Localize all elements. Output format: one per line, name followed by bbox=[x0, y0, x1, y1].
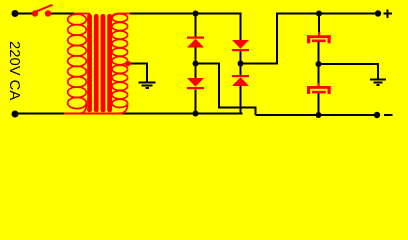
terminal input top bbox=[12, 10, 19, 17]
node top cap junction bbox=[316, 11, 322, 17]
node bottom cap junction bbox=[316, 112, 322, 118]
diode D3 lower left bbox=[187, 78, 204, 89]
wire left branch top bbox=[195, 14, 197, 37]
wire bottom cap lower lead bbox=[318, 93, 320, 116]
diode D2 upper right bbox=[232, 40, 249, 51]
svg-text:220V CA: 220V CA bbox=[6, 41, 22, 100]
ground symbol right bbox=[370, 80, 386, 86]
wire minus vertical jog bbox=[218, 64, 220, 109]
plus sign bbox=[384, 10, 393, 19]
wire secondary top to bridge top bbox=[130, 13, 242, 15]
wire minus horizontal jog bbox=[218, 107, 257, 109]
wire minus step down bbox=[255, 108, 257, 116]
wire ac bottom rail left black bbox=[15, 113, 65, 115]
node left branch middle bbox=[193, 61, 199, 67]
terminal input bottom bbox=[12, 111, 19, 118]
transformer bottom red rail bbox=[64, 113, 121, 115]
wire left branch middle bbox=[195, 48, 197, 79]
wire right branch middle bbox=[240, 51, 242, 76]
wire minus from left middle node bbox=[196, 63, 221, 65]
wire center tap ground stem bbox=[146, 63, 148, 83]
minus sign bbox=[384, 114, 393, 116]
node right branch middle bbox=[238, 61, 244, 67]
transformer center tap bbox=[125, 61, 131, 67]
switch S1 bbox=[32, 5, 53, 17]
transformer T1 secondary coil bbox=[112, 14, 130, 114]
wire plus rail top bbox=[276, 13, 378, 15]
terminal output plus bbox=[375, 10, 381, 16]
wire top cap upper lead bbox=[318, 14, 320, 35]
wire right branch bottom bbox=[240, 86, 242, 115]
terminal output minus bbox=[374, 112, 380, 118]
wire bridge right branch top bbox=[240, 13, 242, 41]
wire switch to primary bbox=[48, 13, 74, 15]
capacitor C2 bottom bbox=[307, 83, 331, 94]
wire plus rail vertical bbox=[276, 13, 278, 64]
wire center tap horizontal bbox=[130, 63, 148, 65]
wire plus rail horizontal from bridge bbox=[241, 63, 279, 65]
wire minus bottom rail bbox=[256, 114, 378, 116]
wire left branch bottom bbox=[195, 90, 197, 114]
transformer T1 primary coil bbox=[68, 14, 90, 114]
node caps middle junction bbox=[316, 61, 322, 67]
capacitor C1 top bbox=[307, 32, 331, 43]
diode D4 lower right bbox=[232, 75, 249, 86]
transformer T1 core bbox=[87, 14, 112, 112]
wire bottom cap upper lead bbox=[318, 64, 320, 85]
diode D1 upper left bbox=[187, 37, 204, 48]
wire right ground stem bbox=[377, 63, 379, 79]
wire top cap lower lead bbox=[318, 42, 320, 65]
node top of left bridge branch bbox=[193, 11, 199, 17]
wire ac bottom rail right black bbox=[120, 113, 243, 115]
ground symbol middle bbox=[139, 83, 156, 89]
wire top-left terminal to switch bbox=[15, 13, 35, 15]
node left branch bottom bbox=[193, 111, 199, 117]
wire cap middle to right ground bbox=[319, 63, 380, 65]
